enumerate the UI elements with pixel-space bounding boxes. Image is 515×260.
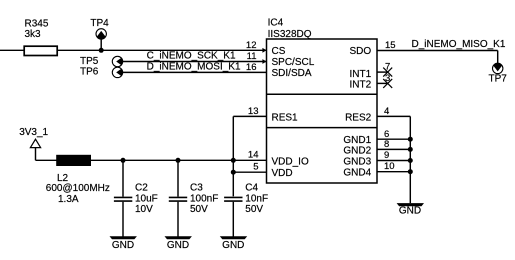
wire GND2 pin 8 [377, 148, 410, 150]
svg-text:IIS328DQ: IIS328DQ [268, 29, 312, 40]
svg-text:TP6: TP6 [80, 66, 99, 77]
svg-text:C2: C2 [135, 183, 148, 194]
svg-text:50V: 50V [245, 204, 263, 215]
test point TP7 [489, 63, 508, 85]
svg-text:GND: GND [222, 240, 244, 251]
pin 12 input arrowhead [262, 48, 266, 53]
svg-text:RES2: RES2 [345, 113, 372, 124]
svg-text:13: 13 [248, 106, 259, 117]
wire GND1 pin 6 [377, 138, 410, 140]
svg-text:10V: 10V [135, 204, 153, 215]
INT2 no-connect stub [377, 79, 392, 88]
svg-text:5: 5 [253, 162, 258, 173]
test point TP6 [80, 66, 123, 77]
junction GND2 [408, 147, 413, 152]
wire CS net from left edge to IC pin 12 [0, 49, 267, 51]
resistor R345 [24, 19, 57, 56]
pin 11 input arrowhead [262, 59, 266, 64]
ground under C4 [220, 236, 247, 251]
svg-text:SPC/SCL: SPC/SCL [272, 57, 315, 68]
svg-text:14: 14 [248, 150, 259, 161]
wire VDD rail [36, 159, 267, 161]
svg-text:GND3: GND3 [343, 156, 371, 167]
svg-text:CS: CS [272, 46, 286, 57]
wire SPC/SCL net TP5 to IC pin 11 [123, 61, 267, 63]
wire SDI/SDA net TP6 to IC pin 16 [123, 71, 267, 73]
svg-text:16: 16 [246, 62, 257, 73]
wire GND3 pin 9 [377, 160, 410, 162]
svg-text:IC4: IC4 [268, 17, 284, 28]
wire SDO to TP7 [377, 51, 498, 64]
svg-text:GND2: GND2 [343, 145, 371, 156]
junction rail/C3 [176, 158, 181, 163]
wire GND4 pin 10 [377, 171, 410, 173]
svg-text:TP4: TP4 [90, 18, 109, 29]
power port 3V3_1 [19, 127, 48, 160]
svg-text:12: 12 [246, 40, 257, 51]
svg-text:1.3A: 1.3A [58, 194, 79, 205]
svg-text:4: 4 [384, 106, 389, 117]
svg-text:15: 15 [385, 40, 396, 51]
svg-text:50V: 50V [190, 204, 208, 215]
svg-text:VDD_IO: VDD_IO [272, 156, 309, 167]
IC U1 IC4 IIS328DQ body [267, 17, 378, 183]
ground right [397, 203, 424, 216]
svg-text:SDO: SDO [350, 46, 372, 57]
capacitor C2 [114, 160, 158, 236]
svg-text:600@100MHz: 600@100MHz [46, 183, 110, 194]
junction GND4 [408, 169, 413, 174]
junction GND3 [408, 158, 413, 163]
svg-text:RES1: RES1 [272, 113, 299, 124]
svg-text:GND4: GND4 [343, 168, 371, 179]
junction VDD pin5/C4 column [231, 170, 236, 175]
svg-text:C4: C4 [245, 183, 258, 194]
svg-text:VDD: VDD [272, 168, 293, 179]
svg-text:10: 10 [384, 161, 395, 172]
svg-text:3k3: 3k3 [25, 29, 42, 40]
junction rail/C4 column [231, 158, 236, 163]
svg-text:C_iNEMO_SCK_K1: C_iNEMO_SCK_K1 [147, 51, 236, 62]
svg-text:TP7: TP7 [489, 74, 508, 85]
svg-text:SDI/SDA: SDI/SDA [272, 68, 312, 79]
junction rail/C2 [121, 158, 126, 163]
wire RES1 pin 13 to VDD column [233, 116, 266, 196]
svg-text:D_iNEMO_MOSI_K1: D_iNEMO_MOSI_K1 [147, 62, 241, 73]
svg-text:D_iNEMO_MISO_K1: D_iNEMO_MISO_K1 [412, 39, 506, 50]
svg-text:GND: GND [112, 240, 134, 251]
wire VDD pin 5 [233, 171, 266, 173]
svg-text:C3: C3 [190, 183, 203, 194]
test point TP5 [80, 56, 123, 67]
ground under C3 [165, 236, 192, 251]
test point TP4 [90, 18, 109, 51]
capacitor C3 [169, 160, 219, 236]
INT1 no-connect stub [377, 68, 392, 77]
capacitor C4 [224, 183, 268, 237]
svg-text:3V3_1: 3V3_1 [19, 127, 48, 138]
svg-text:8: 8 [384, 139, 389, 150]
wire RES2 pin 4 to ground column [377, 116, 410, 203]
svg-text:11: 11 [247, 51, 257, 62]
svg-text:GND: GND [399, 206, 421, 217]
svg-text:INT1: INT1 [350, 69, 372, 80]
junction TP4/wire [99, 48, 104, 53]
svg-text:9: 9 [384, 150, 389, 161]
svg-text:INT2: INT2 [350, 80, 372, 91]
ground under C2 [110, 236, 137, 251]
junction GND1 [408, 137, 413, 142]
inductor L2 [46, 155, 110, 205]
svg-text:GND: GND [167, 240, 189, 251]
